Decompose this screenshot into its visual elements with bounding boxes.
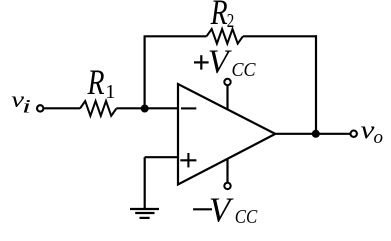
svg-text:R: R [210, 0, 228, 32]
resistor R1 [80, 101, 116, 116]
op-amp U1 [178, 84, 275, 185]
svg-text:CC: CC [232, 59, 256, 81]
label R2 [210, 0, 234, 32]
svg-text:V: V [209, 191, 234, 230]
svg-text:2: 2 [227, 10, 235, 32]
label +VCC [194, 44, 256, 81]
label -VCC [193, 191, 257, 230]
svg-text:1: 1 [105, 81, 115, 103]
wire feedback top right segment [243, 35, 317, 37]
label vi [11, 87, 31, 117]
power terminal +VCC [224, 79, 230, 110]
node A (inverting input junction) [141, 105, 149, 113]
op-amp non-inverting pin marker [180, 153, 196, 167]
wire non-inverting input vertical to ground [144, 157, 146, 208]
wire feedback right vertical [315, 35, 317, 134]
wire output [275, 133, 351, 135]
wire input to R1 [44, 107, 80, 109]
svg-text:i: i [22, 95, 31, 117]
label vo [361, 117, 384, 149]
label R1 [87, 62, 116, 103]
resistor R2 [207, 29, 243, 44]
wire feedback top left segment [144, 35, 207, 37]
power terminal -VCC [224, 159, 230, 189]
input terminal vi [37, 105, 43, 111]
output terminal vo [351, 131, 357, 137]
svg-text:o: o [374, 127, 384, 148]
wire non-inverting input horizontal [145, 156, 178, 158]
wire feedback left vertical [144, 36, 146, 108]
ground [130, 209, 159, 218]
wire R1 to node A [116, 107, 178, 109]
svg-text:R: R [87, 62, 105, 102]
op-amp inverting pin marker [181, 107, 196, 109]
node B (output junction) [312, 130, 320, 138]
svg-text:CC: CC [235, 206, 258, 228]
